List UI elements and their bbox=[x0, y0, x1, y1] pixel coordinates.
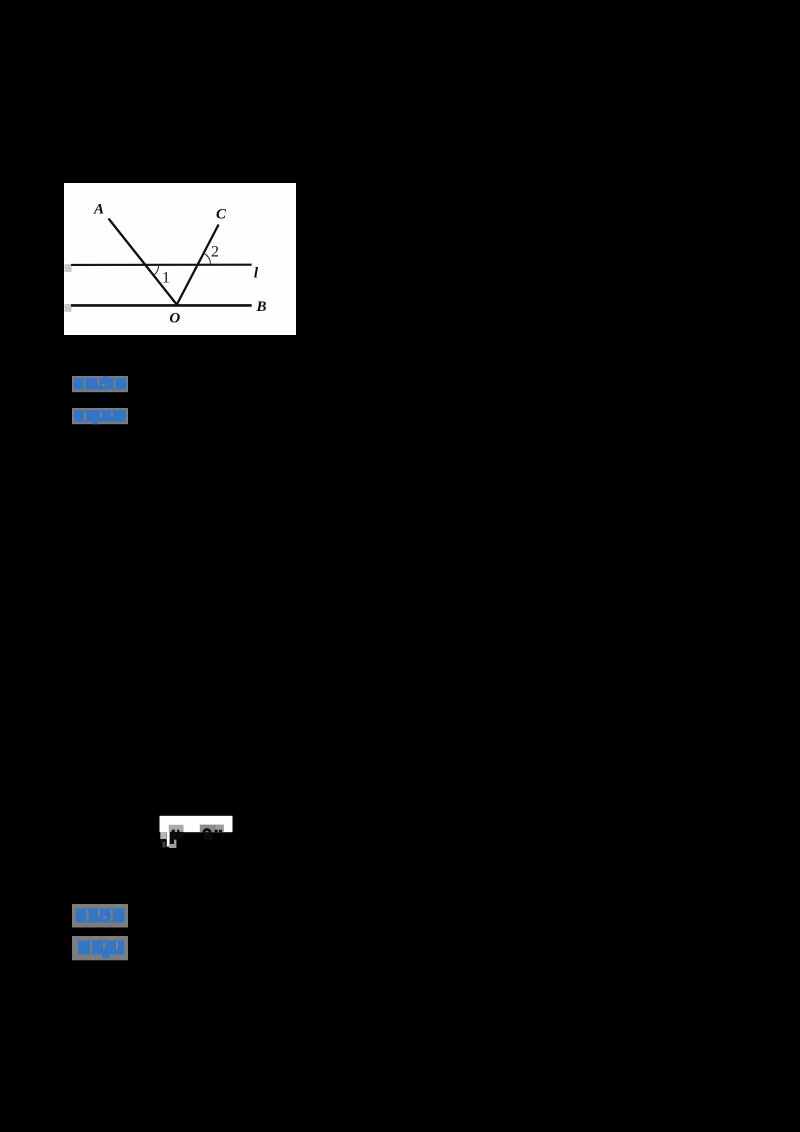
line OB bbox=[71, 304, 252, 307]
analysis tag box 2 bbox=[72, 936, 128, 961]
angle 2 arc bbox=[204, 253, 211, 263]
ray OC bbox=[177, 225, 219, 305]
equation white background bbox=[160, 816, 233, 832]
selection gray patches bbox=[160, 832, 166, 840]
svg-text:O: O bbox=[169, 311, 180, 327]
answer tag box 1 bbox=[72, 376, 128, 393]
svg-text:1: 1 bbox=[162, 270, 170, 287]
angle 1 arc bbox=[154, 266, 159, 276]
analysis tag box 1 bbox=[72, 408, 128, 425]
svg-text:2: 2 bbox=[211, 244, 219, 261]
geometry figure image (white box) bbox=[64, 183, 296, 335]
answer tag box 2 bbox=[72, 904, 128, 928]
ray AO bbox=[109, 219, 177, 305]
glyph 2 bbox=[203, 828, 212, 832]
svg-text:B: B bbox=[255, 299, 266, 315]
black glyph fragments bbox=[172, 830, 175, 832]
white background of figure bbox=[64, 183, 296, 335]
equation fragment bbox=[156, 812, 236, 852]
svg-text:A: A bbox=[93, 202, 104, 218]
svg-text:C: C bbox=[216, 207, 227, 223]
handle on line OB bbox=[65, 304, 72, 312]
handle on line l bbox=[65, 264, 72, 272]
line l bbox=[71, 264, 252, 266]
